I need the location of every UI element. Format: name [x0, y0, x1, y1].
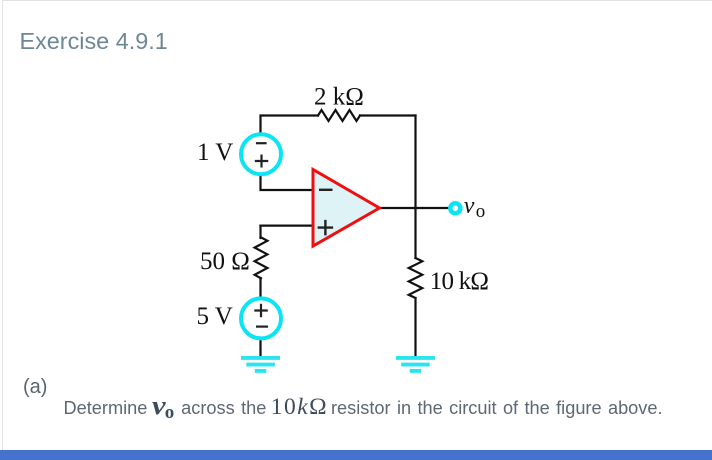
svg-text:o: o — [476, 201, 486, 222]
svg-text:1 V: 1 V — [197, 139, 233, 166]
svg-text:5 V: 5 V — [197, 303, 233, 330]
svg-text:2 kΩ: 2 kΩ — [314, 84, 364, 111]
svg-text:50 Ω: 50 Ω — [200, 248, 250, 275]
svg-text:v: v — [464, 193, 475, 219]
svg-text:10 kΩ: 10 kΩ — [430, 268, 489, 295]
